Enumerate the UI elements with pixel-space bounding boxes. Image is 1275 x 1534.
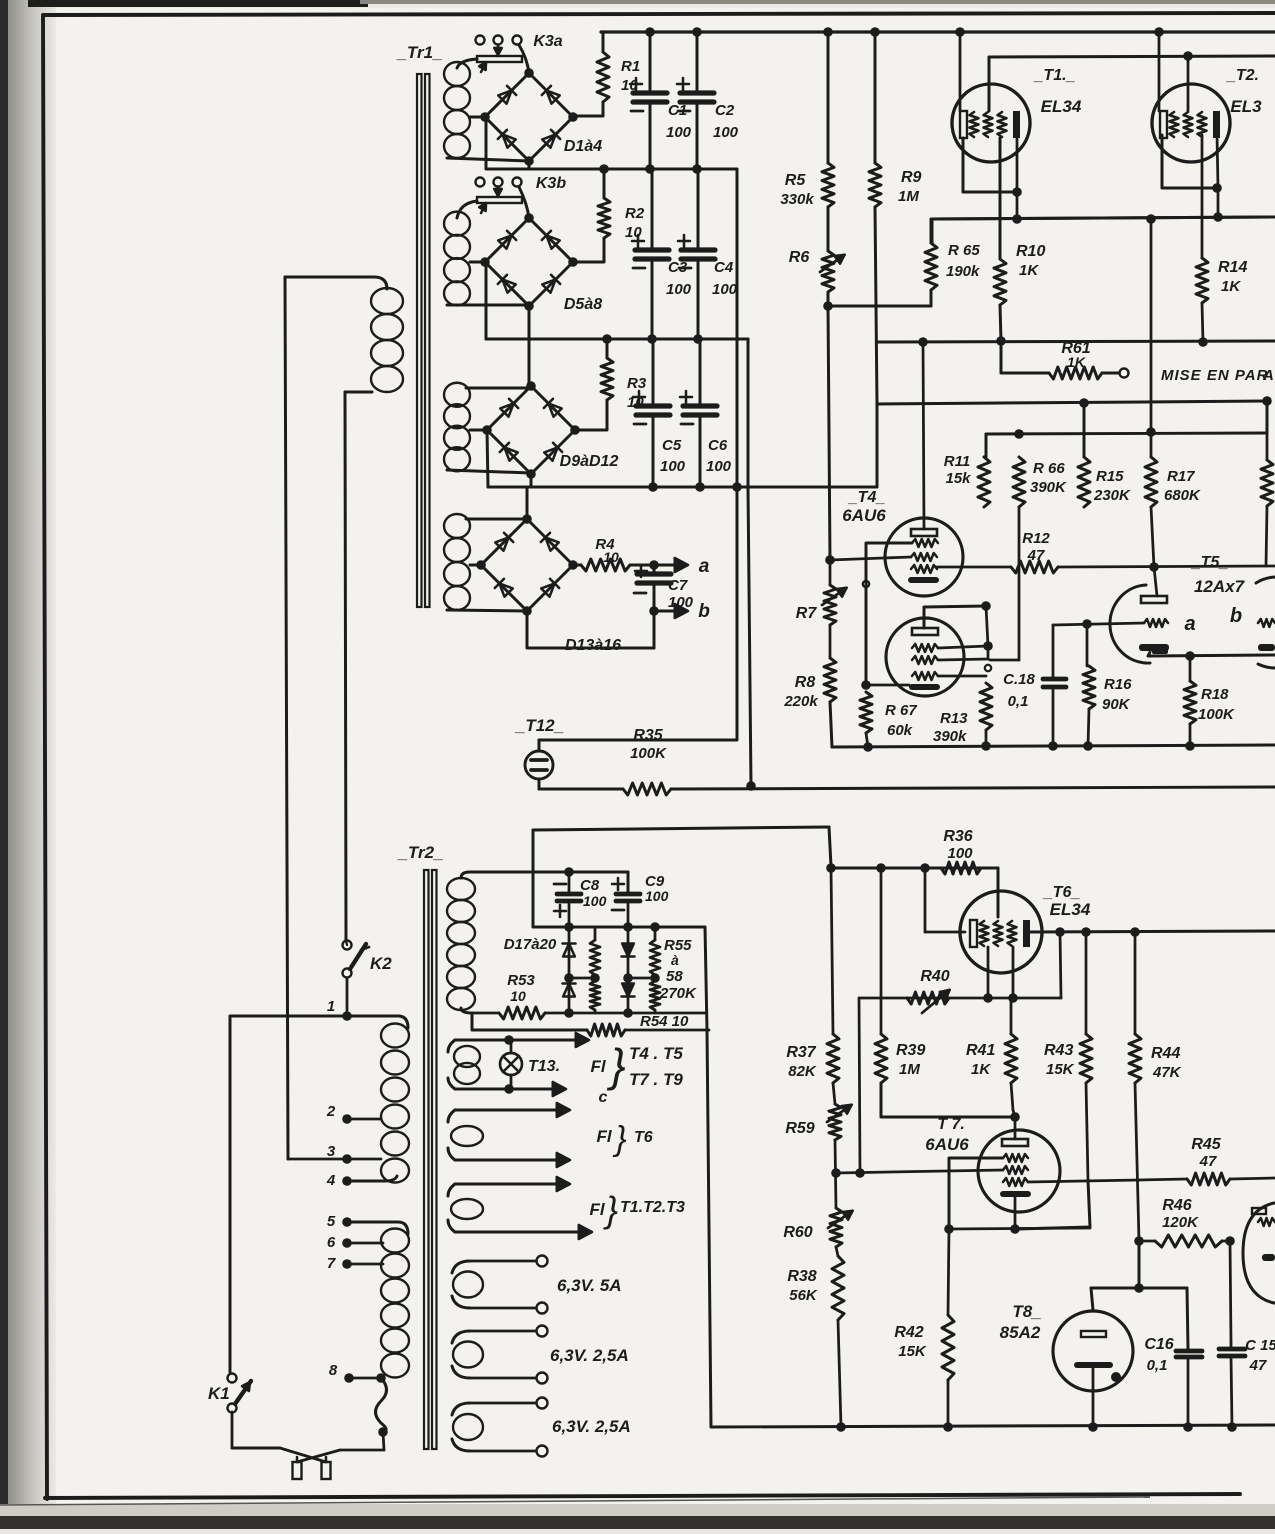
svg-text:R5: R5 xyxy=(785,172,807,189)
svg-text:R46: R46 xyxy=(1162,1197,1191,1214)
svg-text:_T4_: _T4_ xyxy=(848,489,886,506)
svg-text:C 15: C 15 xyxy=(1245,1337,1275,1354)
svg-text:C8: C8 xyxy=(580,877,600,894)
svg-text:680K: 680K xyxy=(1164,487,1201,504)
svg-text:220k: 220k xyxy=(783,693,818,710)
svg-text:A: A xyxy=(1262,367,1274,384)
svg-text:_T1._: _T1._ xyxy=(1034,67,1076,84)
svg-text:EL34: EL34 xyxy=(1041,97,1082,116)
svg-text:R39: R39 xyxy=(896,1042,925,1059)
svg-text:R9: R9 xyxy=(901,169,922,186)
svg-text:4: 4 xyxy=(326,1172,336,1189)
svg-text:T7 . T9: T7 . T9 xyxy=(629,1070,683,1089)
svg-text:R43: R43 xyxy=(1044,1042,1073,1059)
svg-text:100: 100 xyxy=(666,281,692,298)
svg-text:1: 1 xyxy=(327,998,335,1015)
svg-text:R10: R10 xyxy=(1016,243,1045,260)
svg-text:R7: R7 xyxy=(796,605,818,622)
svg-text:Fl: Fl xyxy=(590,1057,606,1076)
svg-text:R14: R14 xyxy=(1218,259,1247,276)
svg-text:100: 100 xyxy=(712,281,738,298)
svg-text:100: 100 xyxy=(645,888,669,904)
svg-text:330k: 330k xyxy=(780,191,814,208)
svg-text:_Tr1_: _Tr1_ xyxy=(396,43,442,62)
svg-text:6: 6 xyxy=(327,1234,336,1251)
svg-text:100: 100 xyxy=(713,124,739,141)
svg-text:D17à20: D17à20 xyxy=(504,936,557,953)
svg-text:1M: 1M xyxy=(899,1061,920,1078)
svg-text:0,1: 0,1 xyxy=(1008,693,1029,710)
svg-text:6AU6: 6AU6 xyxy=(842,506,886,525)
svg-text:100: 100 xyxy=(666,124,692,141)
svg-text:47: 47 xyxy=(1249,1357,1267,1374)
svg-text:60k: 60k xyxy=(887,722,913,739)
svg-text:_Tr2_: _Tr2_ xyxy=(397,843,443,862)
svg-text:R16: R16 xyxy=(1104,676,1132,693)
svg-text:6,3V. 2,5A: 6,3V. 2,5A xyxy=(552,1417,631,1436)
svg-text:0,1: 0,1 xyxy=(1147,1357,1168,1374)
svg-text:58: 58 xyxy=(666,968,683,985)
svg-text:230K: 230K xyxy=(1093,487,1131,504)
svg-text:c: c xyxy=(599,1089,608,1106)
svg-text:3: 3 xyxy=(327,1143,336,1160)
svg-text:100: 100 xyxy=(583,893,607,909)
svg-text:R18: R18 xyxy=(1201,686,1229,703)
svg-text:R11: R11 xyxy=(944,453,970,470)
svg-text:R 67: R 67 xyxy=(885,702,917,719)
svg-text:C1: C1 xyxy=(668,102,687,119)
svg-text:_T5_: _T5_ xyxy=(1191,554,1229,571)
svg-text:15k: 15k xyxy=(945,470,971,487)
svg-text:8: 8 xyxy=(329,1362,338,1379)
svg-text:R 65: R 65 xyxy=(948,242,980,259)
svg-text:T1.T2.T3: T1.T2.T3 xyxy=(620,1199,685,1216)
svg-text:K2: K2 xyxy=(370,954,392,973)
svg-text:10: 10 xyxy=(625,224,642,241)
svg-text:R35: R35 xyxy=(633,727,663,744)
svg-text:R8: R8 xyxy=(795,674,816,691)
svg-text:R53: R53 xyxy=(507,972,535,989)
svg-text:R6: R6 xyxy=(789,249,810,266)
svg-text:a: a xyxy=(1184,613,1195,635)
svg-text:C2: C2 xyxy=(715,102,735,119)
svg-text:2: 2 xyxy=(326,1103,336,1120)
svg-text:R17: R17 xyxy=(1167,468,1195,485)
svg-text:R40: R40 xyxy=(920,968,949,985)
svg-text:6,3V. 5A: 6,3V. 5A xyxy=(557,1276,622,1295)
svg-text:R42: R42 xyxy=(894,1324,923,1341)
svg-text:R38: R38 xyxy=(787,1268,816,1285)
svg-text:T4 . T5: T4 . T5 xyxy=(629,1044,683,1063)
svg-text:EL3: EL3 xyxy=(1230,97,1262,116)
svg-text:R36: R36 xyxy=(943,828,972,845)
svg-text:R60: R60 xyxy=(783,1224,812,1241)
svg-text:5: 5 xyxy=(327,1213,336,1230)
svg-text:R45: R45 xyxy=(1191,1136,1221,1153)
svg-text:1K: 1K xyxy=(1221,278,1241,295)
svg-text:15K: 15K xyxy=(1046,1061,1075,1078)
svg-text:190k: 190k xyxy=(946,263,980,280)
svg-text:C6: C6 xyxy=(708,437,728,454)
svg-text:85A2: 85A2 xyxy=(1000,1323,1041,1342)
svg-text:82K: 82K xyxy=(788,1063,817,1080)
svg-text:100K: 100K xyxy=(630,745,667,762)
svg-text:R1: R1 xyxy=(621,58,640,75)
svg-text:6,3V. 2,5A: 6,3V. 2,5A xyxy=(550,1346,629,1365)
svg-text:Fl: Fl xyxy=(589,1200,605,1219)
svg-text:R 66: R 66 xyxy=(1033,460,1065,477)
svg-text:R54 10: R54 10 xyxy=(640,1013,689,1030)
svg-text:7: 7 xyxy=(327,1255,336,1272)
svg-text:R59: R59 xyxy=(785,1120,814,1137)
svg-text:R44: R44 xyxy=(1151,1045,1180,1062)
svg-text:D9àD12: D9àD12 xyxy=(560,453,619,470)
svg-text:120K: 120K xyxy=(1162,1214,1199,1231)
svg-text:C7: C7 xyxy=(668,577,688,594)
svg-text:12Ax7: 12Ax7 xyxy=(1194,577,1246,596)
svg-text:b: b xyxy=(698,601,710,622)
svg-text:1K: 1K xyxy=(971,1061,991,1078)
svg-text:1K: 1K xyxy=(1019,262,1039,279)
svg-text:56K: 56K xyxy=(789,1287,818,1304)
svg-text:à: à xyxy=(671,952,679,968)
svg-text:R15: R15 xyxy=(1096,468,1124,485)
svg-text:47K: 47K xyxy=(1152,1064,1182,1081)
svg-text:R2: R2 xyxy=(625,205,645,222)
svg-text:100: 100 xyxy=(706,458,732,475)
svg-text:C3: C3 xyxy=(668,259,688,276)
svg-text:K3a: K3a xyxy=(533,33,562,50)
svg-text:_T6_: _T6_ xyxy=(1043,884,1081,901)
svg-text:T6: T6 xyxy=(634,1129,653,1146)
svg-text:a: a xyxy=(699,556,710,577)
svg-text:T 7.: T 7. xyxy=(937,1116,965,1133)
svg-text:15K: 15K xyxy=(898,1343,927,1360)
svg-text:D1à4: D1à4 xyxy=(564,138,602,155)
svg-text:C5: C5 xyxy=(662,437,682,454)
svg-text:100: 100 xyxy=(947,845,973,862)
svg-text:T8_: T8_ xyxy=(1012,1302,1041,1321)
svg-text:90K: 90K xyxy=(1102,696,1131,713)
svg-text:1M: 1M xyxy=(898,188,919,205)
svg-text:EL34: EL34 xyxy=(1050,900,1091,919)
svg-text:270K: 270K xyxy=(659,985,697,1002)
svg-text:}: } xyxy=(612,1120,626,1158)
svg-text:T13.: T13. xyxy=(528,1058,560,1075)
svg-text:K1: K1 xyxy=(208,1384,230,1403)
svg-text:390K: 390K xyxy=(1030,479,1067,496)
svg-text:C16: C16 xyxy=(1144,1336,1173,1353)
svg-text:K3b: K3b xyxy=(536,175,566,192)
svg-text:47: 47 xyxy=(1199,1153,1217,1170)
svg-text:_T2.: _T2. xyxy=(1226,67,1259,84)
svg-text:100: 100 xyxy=(660,458,686,475)
svg-text:D5à8: D5à8 xyxy=(564,296,602,313)
svg-text:D13à16: D13à16 xyxy=(565,637,621,654)
svg-text:6AU6: 6AU6 xyxy=(925,1135,969,1154)
svg-text:_T12_: _T12_ xyxy=(515,716,564,735)
svg-text:}: } xyxy=(603,1189,618,1230)
svg-text:R37: R37 xyxy=(786,1044,816,1061)
svg-text:R13: R13 xyxy=(940,710,968,727)
svg-text:10: 10 xyxy=(510,988,526,1004)
svg-text:R12: R12 xyxy=(1022,530,1050,547)
svg-text:100K: 100K xyxy=(1198,706,1235,723)
svg-text:C.18: C.18 xyxy=(1003,671,1035,688)
svg-text:b: b xyxy=(1230,605,1242,627)
svg-text:Fl: Fl xyxy=(596,1127,612,1146)
svg-text:C4: C4 xyxy=(714,259,734,276)
svg-text:R3: R3 xyxy=(627,375,647,392)
svg-text:R41: R41 xyxy=(966,1042,995,1059)
svg-text:MISE EN PAR: MISE EN PAR xyxy=(1161,367,1268,384)
svg-text:390k: 390k xyxy=(933,728,967,745)
